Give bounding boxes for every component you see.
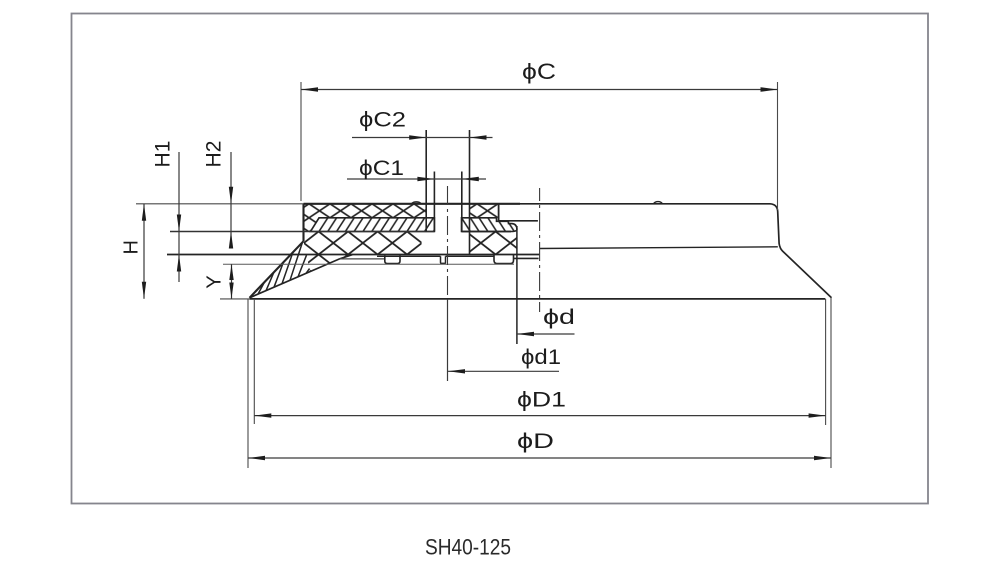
thread major line left [425,130,427,232]
dimension H2 [203,141,234,249]
rib 1 [385,255,400,263]
rubber body lower right section (cross-hatched) [470,232,517,255]
svg-text:SH40-125: SH40-125 [425,535,511,560]
thread minor line left [433,172,435,232]
main axis centerline [539,188,541,312]
internal line 2 right [462,231,512,233]
underside face B [377,255,441,257]
cup lip wedge rung hatching [258,242,310,294]
svg-text:Y: Y [204,275,226,288]
cup underside line right half [540,247,778,249]
rib 3 [494,255,514,264]
dimension phi D1 [254,299,825,425]
svg-text:ϕC: ϕC [522,59,556,84]
svg-text:ϕd: ϕd [543,305,575,329]
border frame [72,14,929,504]
rubber body lower left section (cross-hatched) [304,232,422,272]
cup lip inner line left [250,255,353,298]
underside face D [514,257,539,259]
fitting hole centerline [447,186,449,299]
thread minor line right [461,172,463,232]
internal line 3 (cavity ceiling) [167,254,540,256]
rib 2 [441,256,446,263]
dimension phiC2 [352,108,493,140]
svg-text:ϕC2: ϕC2 [359,108,406,132]
insert pocket floor shoulder line [499,220,538,222]
cup top surface edge left [304,203,521,205]
thread major line right [469,130,471,255]
svg-text:H2: H2 [203,141,226,168]
dimension phiC1 [347,156,486,181]
phi d extension edge line [516,226,518,344]
rubber top plate right section (cross-hatched) [470,204,499,218]
extension line top of body [136,203,304,205]
svg-text:ϕC1: ϕC1 [359,156,404,180]
bottom edge thin extension left [220,298,250,300]
rib bottom extension line 4 [223,263,514,265]
dimension H [121,204,147,299]
cup outer wall left slope [250,241,304,298]
metal insert plate left (diagonal hatch) [311,218,435,232]
left edge of top plate [302,204,304,241]
underside ledge A [340,258,385,260]
svg-text:H1: H1 [152,141,175,168]
top surface bump left [412,202,422,204]
cup bottom edge [250,298,826,300]
dimension H1 [152,141,182,282]
svg-text:H: H [121,240,143,254]
svg-text:ϕD1: ϕD1 [517,388,566,412]
internal line 2 left [170,231,434,233]
top surface bump right [654,202,663,204]
underside face C [446,255,495,257]
dimension phi D [248,298,831,468]
rubber top plate left section (cross-hatched) [304,204,427,232]
metal insert plate right (diagonal hatch) [462,218,517,232]
dimension phiC [301,59,778,210]
cup top edge right with corner and skirt slope [520,204,832,298]
upper right block edge [498,204,500,221]
dimension phi d [517,305,575,336]
dimension phi d1 [448,345,561,374]
dimension Y [204,264,234,299]
svg-text:ϕD: ϕD [517,429,554,453]
svg-text:ϕd1: ϕd1 [521,345,561,369]
